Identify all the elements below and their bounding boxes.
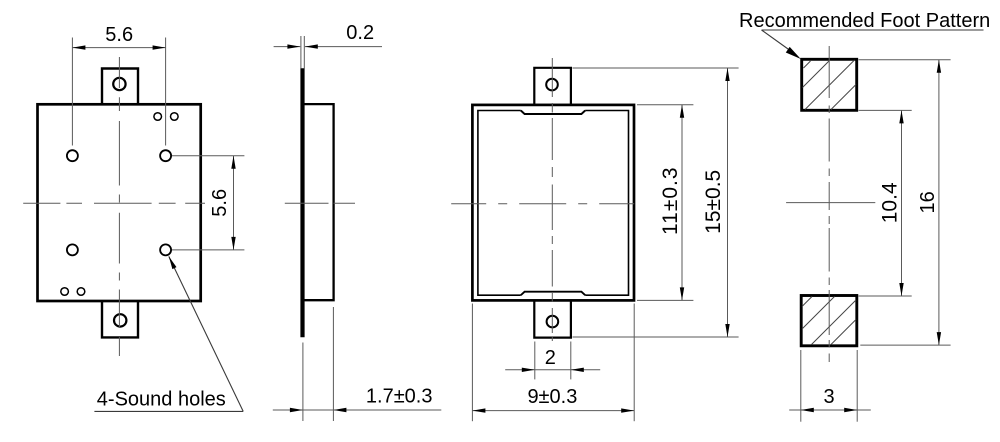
svg-text:10.4: 10.4 — [879, 182, 902, 223]
front top mounting tab — [102, 69, 138, 105]
front bottom mounting tab — [102, 301, 138, 337]
svg-text:15±0.5: 15±0.5 — [702, 170, 725, 234]
svg-text:4-Sound holes: 4-Sound holes — [97, 388, 226, 410]
dimension 9±0.3 (case width) — [472, 304, 634, 422]
back view outer body — [472, 105, 634, 301]
back top mounting tab — [534, 68, 571, 105]
front bottom tab hole — [114, 314, 126, 326]
back view bottom notch — [521, 292, 585, 296]
front horizontal center line — [23, 202, 205, 204]
small terminal hole pair bottom-left — [61, 288, 69, 296]
sound hole top-left — [67, 150, 78, 161]
dimension 1.7±0.3 (overall thickness) — [273, 307, 442, 421]
front top tab hole — [113, 78, 125, 90]
foot pattern vertical center line — [828, 46, 830, 362]
svg-text:16: 16 — [917, 191, 939, 213]
svg-text:1.7±0.3: 1.7±0.3 — [366, 386, 433, 408]
dimension 16 (overall pad span, rotated) — [859, 60, 951, 345]
dimension 3 (pad width) — [789, 350, 871, 422]
foot pattern horizontal center line — [786, 202, 875, 204]
back bottom tab hole — [547, 316, 559, 328]
dimension 0.2 (plate thickness) — [274, 36, 382, 69]
side view case outline — [304, 104, 334, 300]
svg-text:0.2: 0.2 — [346, 22, 374, 44]
side view metal plate (edge-on) — [300, 68, 304, 337]
svg-text:5.6: 5.6 — [209, 189, 231, 217]
sound hole bottom-left — [67, 244, 78, 255]
svg-text:3: 3 — [823, 386, 834, 408]
back bottom mounting tab — [534, 301, 571, 338]
sound hole bottom-right — [160, 244, 171, 255]
bottom pad hatching — [802, 297, 856, 345]
dimension 11±0.3 (case height, rotated) — [637, 105, 693, 301]
back view top notch — [521, 111, 585, 115]
dimension 5.6 (right, hole spacing vertical, rotated) — [172, 156, 244, 250]
back top tab hole — [546, 79, 558, 91]
side view horizontal center line — [285, 202, 355, 204]
dimension 2 (tab width) — [505, 342, 600, 380]
sound hole top-right — [160, 150, 171, 161]
svg-text:2: 2 — [545, 347, 556, 369]
front view body outline — [38, 104, 201, 301]
bottom solder pad — [801, 296, 857, 346]
svg-text:9±0.3: 9±0.3 — [527, 386, 577, 408]
top solder pad — [802, 59, 857, 110]
foot pattern leader line — [762, 30, 984, 54]
svg-text:11±0.3: 11±0.3 — [659, 166, 682, 235]
foot pattern leader arrowhead — [786, 47, 801, 59]
dimension 5.6 (top, hole spacing horizontal) — [72, 38, 165, 146]
back view inner wall — [478, 111, 629, 296]
dimension 15±0.5 (overall height, rotated) — [573, 68, 739, 337]
small terminal hole pair top-right — [154, 113, 162, 121]
dimension 10.4 (pad gap, rotated) — [859, 110, 912, 296]
front vertical center line — [118, 57, 120, 356]
leader 4-Sound holes — [94, 256, 243, 411]
svg-text:Recommended Foot Pattern: Recommended Foot Pattern — [739, 10, 990, 32]
top pad hatching — [803, 60, 857, 110]
back vertical center line — [551, 58, 553, 341]
back horizontal center line — [451, 203, 634, 205]
svg-text:5.6: 5.6 — [105, 24, 133, 46]
